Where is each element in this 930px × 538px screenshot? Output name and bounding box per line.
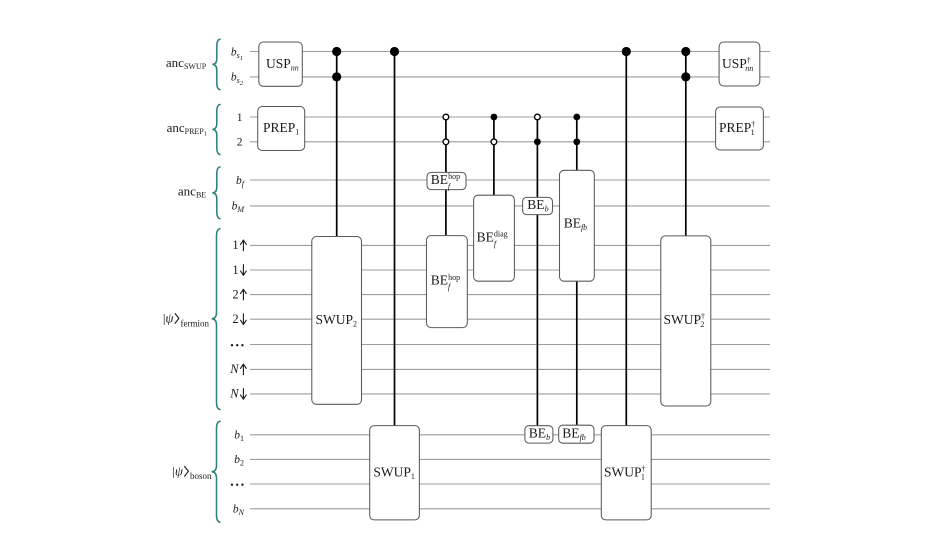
control dot SWUP_2_dag on b_s1: [681, 47, 690, 56]
control dot BE_b on 2: [534, 138, 541, 145]
svg-text:USP†nn: USP†nn: [722, 56, 753, 73]
svg-text:2: 2: [237, 137, 243, 149]
open control BE_f_diag on 2: [491, 139, 497, 145]
svg-text:1: 1: [232, 238, 238, 252]
label psi boson: [172, 463, 212, 481]
control dot BE_f_diag on 1: [491, 114, 498, 121]
wire b_N: [250, 508, 770, 510]
brace anc_SWUP: [212, 39, 220, 89]
control dot SWUP_1_dag on b_s1: [622, 47, 631, 56]
wire label fermion dots: [231, 344, 244, 346]
gate BE_fb upper: [560, 170, 595, 281]
wire fermion Ndown: [250, 393, 770, 395]
svg-text:1: 1: [237, 112, 243, 124]
wire fermion 2down: [250, 318, 770, 320]
svg-text:|ψ: |ψ: [163, 311, 175, 326]
gate BE_f_hop big (fermion): [427, 236, 468, 328]
brace fermion register: [212, 229, 220, 410]
wire label 2 down: [232, 312, 246, 326]
control dot BE_fb on 2: [573, 138, 580, 145]
wire b_s1: [250, 51, 770, 53]
wire fermion 2up: [250, 294, 770, 296]
open control BE_f_hop on 1: [443, 114, 449, 120]
wire fermion 1up: [250, 244, 770, 246]
wire boson dots row: [250, 483, 770, 485]
wire anc_PREP 2: [250, 141, 770, 143]
open control BE_f_hop on 2: [443, 139, 449, 145]
svg-text:SWUP†2: SWUP†2: [664, 312, 706, 329]
svg-text:N: N: [229, 387, 239, 401]
svg-text:PREP†1: PREP†1: [719, 120, 755, 137]
control dot SWUP_2 on b_s1: [332, 47, 341, 56]
gate BE_b upper (on b_M): [523, 197, 553, 215]
svg-text:SWUP†1: SWUP†1: [604, 464, 646, 481]
svg-text:fermion: fermion: [181, 318, 210, 328]
wire anc_PREP 1: [250, 116, 770, 118]
control line BE_b: [536, 117, 538, 426]
wire label N up: [229, 362, 246, 376]
control line BE_f_diag: [493, 117, 495, 196]
svg-text:2: 2: [232, 287, 238, 301]
wire label N down: [229, 387, 246, 401]
svg-text:1: 1: [232, 263, 238, 277]
svg-text:SWUP1: SWUP1: [373, 464, 415, 481]
control line SWUP_1: [394, 52, 396, 427]
wire fermion 1down: [250, 269, 770, 271]
control line BE_f_hop: [445, 117, 447, 236]
gate USP_nn_dag: [719, 42, 760, 86]
gate BE_f_hop small (on b_f): [427, 172, 466, 191]
brace boson register: [212, 421, 220, 522]
control dot SWUP_2 on b_s2: [332, 72, 341, 81]
control line SWUP_2: [336, 52, 338, 238]
svg-text:boson: boson: [190, 471, 212, 481]
gate SWUP_2_dag: [661, 236, 711, 406]
svg-text:|ψ: |ψ: [172, 463, 184, 478]
open control BE_b on 1: [535, 114, 541, 120]
brace anc_BE: [212, 167, 220, 219]
wire b_s2: [250, 76, 770, 78]
gate BE_fb lower (on b_1): [559, 425, 594, 443]
label psi fermion: [163, 311, 210, 329]
control line BE_fb lower: [576, 281, 578, 426]
control line SWUP_2_dag: [685, 52, 687, 237]
wire fermion dots row: [250, 344, 770, 346]
wire b_1: [250, 434, 770, 436]
gate PREP_1_dag: [716, 107, 764, 150]
control dot SWUP_1 on b_s1: [390, 47, 399, 56]
wire label boson dots: [231, 484, 244, 486]
wire b_M: [250, 205, 770, 207]
wire label 1 up: [232, 238, 246, 252]
control line BE_fb upper: [576, 117, 578, 171]
gate SWUP_2: [312, 237, 362, 405]
wire b_2: [250, 458, 770, 460]
wire label 2 up: [232, 287, 246, 301]
wire b_f: [250, 179, 770, 181]
wire fermion Nup: [250, 368, 770, 370]
control dot SWUP_2_dag on b_s2: [681, 72, 690, 81]
control dot BE_fb on 1: [573, 114, 580, 121]
svg-text:N: N: [229, 362, 239, 376]
wire label 1 down: [232, 263, 246, 277]
gate SWUP_1: [370, 426, 420, 520]
svg-text:2: 2: [232, 312, 238, 326]
gate USP_nn: [259, 42, 303, 86]
svg-text:PREP1: PREP1: [263, 120, 299, 137]
brace anc_PREP1: [212, 105, 220, 155]
gate BE_f_diag: [474, 195, 515, 281]
gate SWUP_1_dag: [601, 426, 651, 520]
control line SWUP_1_dag: [625, 52, 627, 427]
gate BE_b lower (on b_1): [525, 426, 553, 443]
gate PREP_1: [258, 107, 305, 151]
svg-text:SWUP2: SWUP2: [316, 312, 358, 329]
